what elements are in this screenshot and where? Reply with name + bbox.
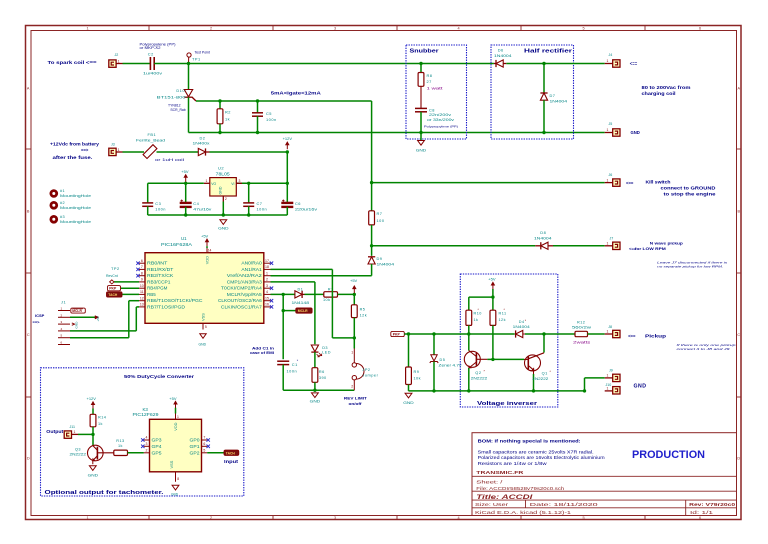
ground symbol snubber [418,141,425,146]
svg-text:U2: U2 [218,166,224,171]
resistor R7 [369,211,385,225]
svg-text:6: 6 [203,442,205,446]
svg-text:R9: R9 [414,370,420,374]
junction LED gnd node [313,389,316,392]
svg-text:1: 1 [74,430,76,434]
capacitor C8 [415,107,458,132]
capacitor C6 polarized [281,183,317,215]
svg-text:3: 3 [239,179,241,183]
power +5V main rail [185,177,187,182]
junction RA1 R5 JP2 [353,336,356,339]
svg-text:no separate pickup for low RPM: no separate pickup for low RPM. [657,264,723,268]
ground symbol below LED [312,393,319,398]
connector J8 [605,325,620,337]
svg-text:TACH: TACH [226,451,236,455]
svg-text:5: 5 [582,516,584,520]
svg-text:or 1uH coil: or 1uH coil [155,158,184,162]
svg-text:GND: GND [88,473,99,477]
ground symbol U2 [220,220,227,225]
snubber box [406,45,467,139]
svg-text:10k: 10k [323,298,330,302]
U1 left pins [136,259,202,310]
svg-text:4: 4 [146,436,148,440]
svg-text:1: 1 [118,59,120,63]
frame column ticks and numbers [86,26,701,520]
svg-text:+5V: +5V [96,315,100,322]
junction C5 gate [256,99,259,102]
wire gnd node to JP2 [315,389,354,391]
svg-text:#1: #1 [60,189,65,193]
connector J3 [109,143,123,156]
svg-text:10k: 10k [414,376,421,380]
note charging coil [642,85,691,96]
connector J6 [605,173,634,186]
svg-text:12: 12 [140,296,144,300]
power +5V inverser [492,285,494,290]
svg-text:PIC12F629: PIC12F629 [133,412,160,417]
svg-text:5: 5 [203,448,205,452]
svg-text:RB1/RX/DT: RB1/RX/DT [147,267,174,272]
svg-text:BOM: if nothing special is men: BOM: if nothing special is mentioned: [478,438,582,443]
note 12Vdc from battery [50,142,100,160]
svg-text:R5: R5 [360,307,366,311]
svg-text:1: 1 [177,415,179,419]
svg-text:or 33n/200v: or 33n/200v [427,118,454,122]
microcontroller K3 PIC12F629 [133,407,202,472]
svg-text:Id: 1/1: Id: 1/1 [690,510,714,515]
microcontroller U1 PIC16F628A [145,236,264,323]
svg-text:78L05: 78L05 [216,172,231,177]
junction R2 gate [218,99,221,102]
svg-text:or MKP-X2: or MKP-X2 [140,46,161,50]
wire to R12 [544,333,575,335]
frame row ticks and letters [26,87,742,461]
svg-text:2watts: 2watts [573,341,590,345]
svg-text:7: 7 [203,436,205,440]
wire R6 to gnd node [314,382,316,390]
svg-text:GP1: GP1 [190,444,201,449]
svg-text:1: 1 [86,516,88,520]
svg-text:2N2222: 2N2222 [471,375,488,380]
svg-text:J1: J1 [61,300,66,305]
wire MCLR to C1 [282,311,284,360]
wire U2 gnd pin [222,202,224,216]
wire SCR gate line [196,100,372,102]
junction +12V node [286,150,289,153]
svg-text:GND: GND [403,401,414,405]
diode D6 [494,47,513,67]
svg-text:8: 8 [177,477,179,481]
svg-text:TRANSMIC.FR: TRANSMIC.FR [476,470,524,475]
svg-text:A: A [738,87,741,91]
resistor R8 [418,64,442,91]
svg-text:3: 3 [266,284,268,288]
wire 5V to R5 [353,294,355,304]
svg-text:1: 1 [607,178,609,182]
svg-text:RevCnt: RevCnt [106,274,118,278]
svg-text:2: 2 [351,385,353,389]
svg-text:1: 1 [118,148,120,152]
power +12V [286,145,288,150]
svg-text:+5V: +5V [350,278,358,283]
svg-text:J9: J9 [609,369,613,373]
svg-text:50% DutyCycle Converter: 50% DutyCycle Converter [124,374,194,380]
svg-text:Q3: Q3 [75,448,81,452]
wire D1 to R1 [305,293,324,295]
svg-text:Q2: Q2 [475,370,481,375]
junction D7 top [542,62,545,65]
net label MCLR at U1 [296,308,312,313]
svg-text:1: 1 [86,26,88,30]
mounting hole M1 [51,189,91,198]
svg-text:GP4: GP4 [152,444,163,449]
svg-text:GND: GND [75,321,79,329]
svg-text:1: 1 [607,128,609,132]
svg-text:Small capacitors are ceramic 2: Small capacitors are ceramic 25volts X7R… [478,449,594,454]
junction C7 top [247,182,250,185]
svg-text:C: C [737,333,740,337]
wire J11 to Q3 [78,433,93,435]
svg-text:Rev: V79r20c0: Rev: V79r20c0 [689,502,736,507]
svg-text:Polarized capacitors are 16vol: Polarized capacitors are 16volts Electro… [478,455,606,460]
svg-text:GND: GND [634,384,647,390]
svg-text:C8: C8 [429,107,435,112]
svg-text:16: 16 [265,303,269,307]
svg-text:2: 2 [266,278,268,282]
svg-text:100: 100 [377,218,385,223]
resistor R2 [217,101,231,133]
junction Q2 emitter gnd [467,389,470,392]
mounting hole M2 [51,201,91,210]
transistor Q2 [464,334,487,391]
svg-text:+5V: +5V [488,277,496,282]
junction J9 gnd [583,389,586,392]
svg-text:1: 1 [206,179,208,183]
svg-text:D10: D10 [176,88,185,93]
wire PGC from RB6 to ICSP pin5 [70,301,139,338]
svg-text:5: 5 [582,26,584,30]
net flag RevCnt on RB3 [106,274,139,284]
resistor R10 [466,308,482,325]
svg-text:==>: ==> [81,148,89,153]
svg-text:D6: D6 [498,47,504,52]
title block kicad row [475,510,714,515]
svg-text:2N2222: 2N2222 [532,376,548,381]
wire 5V rail left of U2 [148,182,204,184]
svg-text:Size: User: Size: User [475,502,509,507]
svg-text:MCLR: MCLR [72,309,82,313]
svg-text:GND: GND [199,342,207,346]
svg-text:B: B [27,210,30,214]
wire R11 to base node [492,325,494,359]
junction at U2 input [286,182,289,185]
svg-text:VDD: VDD [173,422,178,430]
capacitor C2 [140,42,176,75]
junction D5 bottom [432,389,435,392]
svg-text:12k: 12k [499,318,506,322]
svg-text:220u/16v: 220u/16v [295,206,317,211]
capacitor C4 polarized [180,183,212,215]
svg-text:8: 8 [141,271,143,275]
connector J1 ICSP [33,300,71,345]
svg-text:AN0/RA0: AN0/RA0 [241,261,262,266]
svg-text:ICSP: ICSP [35,313,45,318]
svg-text:7: 7 [141,265,143,269]
svg-text:to stop the engine: to stop the engine [664,192,717,197]
junction 5V corner [491,295,494,298]
wire 12V node down [286,152,288,183]
svg-text:GP2: GP2 [190,450,201,455]
svg-text:+5V: +5V [181,169,189,174]
wire 12V to R14 [92,409,94,415]
svg-text:RB5: RB5 [147,292,157,297]
svg-text:SCR_Rab: SCR_Rab [170,108,185,112]
svg-text:connect to GROUND: connect to GROUND [661,186,716,191]
wire D8 to J7 [553,245,605,247]
K3 right pins [190,436,210,456]
svg-text:#2: #2 [60,201,65,205]
svg-text:100n: 100n [266,117,277,122]
duty cycle converter box [41,368,244,496]
junction Q1 emitter gnd [532,389,535,392]
svg-text:1: 1 [607,374,609,378]
svg-text:after the fuse.: after the fuse. [53,155,93,160]
svg-text:D5: D5 [440,358,446,362]
svg-text:Half rectifier: Half rectifier [524,49,573,55]
svg-text:1: 1 [607,330,609,334]
svg-text:RB6/T1OSO/T1CKI/PGC: RB6/T1OSO/T1CKI/PGC [147,298,203,303]
svg-text:B: B [738,210,741,214]
svg-text:Input: Input [224,459,239,464]
svg-text:100n: 100n [257,206,268,211]
junction D5 top [432,332,435,335]
svg-text:47u/16v: 47u/16v [193,206,211,211]
junction base node [491,358,494,361]
svg-text:1N4004: 1N4004 [377,261,396,266]
svg-text:PRODUCTION: PRODUCTION [632,449,705,461]
svg-text:4: 4 [457,516,459,520]
svg-text:100n: 100n [287,368,298,373]
svg-text:==>: ==> [33,320,41,325]
resistor R12 [572,320,591,344]
svg-text:TP2: TP2 [111,266,120,271]
svg-text:1: 1 [266,271,268,275]
svg-text:R11: R11 [499,312,507,316]
junction Q1 collector node [542,332,545,335]
mounting hole M3 [51,215,91,224]
svg-text:1k: 1k [118,444,123,448]
svg-text:Test Point: Test Point [195,50,210,54]
svg-text:PKP: PKP [109,287,117,291]
svg-text:D: D [27,457,30,461]
resistor R5 [351,305,367,318]
svg-text:GND: GND [310,399,321,403]
diode D9 [368,256,395,276]
svg-text:MCLR: MCLR [298,309,308,313]
wire SCR cathode down [188,97,190,132]
svg-text:1N400x: 1N400x [193,140,210,145]
wire 5V to R10 R11 [469,289,493,310]
svg-text:9: 9 [141,278,143,282]
wire C2 to snubber and J4 [154,63,494,65]
wire R5 to JP2 [353,318,355,349]
wire inverser gnd rail [409,390,584,392]
svg-text:GP5: GP5 [152,450,163,455]
svg-text:1: 1 [607,387,609,391]
connector J7 [605,236,637,251]
wire J2 to C2 [123,63,151,65]
svg-text:<==: <== [626,180,634,185]
svg-text:17: 17 [265,259,269,263]
connector J10 [605,383,620,394]
svg-text:U1: U1 [181,236,187,241]
svg-text:CLKIN/OSC1/RA7: CLKIN/OSC1/RA7 [221,304,263,309]
svg-text:6: 6 [141,259,143,263]
svg-text:100n: 100n [155,206,166,211]
svg-text:D9: D9 [377,256,383,261]
zener diode D5 [430,334,462,391]
svg-text:VDD: VDD [205,256,210,264]
transistor Q1 [524,353,552,391]
svg-text:R6: R6 [319,370,325,374]
wire R12 to J8 [588,333,605,335]
net label TACH on RB5 [107,292,140,297]
junction D7 bottom [542,131,545,134]
junction U2 gnd [222,213,225,216]
svg-text:1N4004: 1N4004 [550,98,569,103]
svg-text:for LOW RPM: for LOW RPM [635,246,667,251]
svg-text:18: 18 [265,265,269,269]
ground symbol Q3 [89,466,96,471]
svg-text:2: 2 [210,516,212,520]
svg-text:Kill switch: Kill switch [646,179,672,184]
title block size and date row [475,502,736,507]
svg-text:J2: J2 [115,53,119,57]
svg-text:2: 2 [225,197,227,201]
net label PKP on RB4 [108,286,140,291]
wire PKP line [404,333,514,335]
svg-text:1N4004: 1N4004 [513,325,530,329]
svg-text:+5V: +5V [169,396,177,401]
svg-text:3: 3 [334,516,336,520]
svg-text:D1: D1 [298,287,304,291]
diode D4 [513,319,530,337]
resistor R9 [406,334,421,391]
svg-text:charging coil: charging coil [642,91,676,96]
junction kill line [370,181,373,184]
ground symbol R9 [405,393,412,398]
svg-text:VI: VI [231,182,234,186]
svg-text:VSS: VSS [169,460,174,468]
regulator U2 78L05 [204,166,242,202]
wire RA1 sense line [271,269,355,338]
svg-text:GND: GND [218,226,229,230]
svg-text:10: 10 [140,284,144,288]
note add C1 for EMI [250,347,274,355]
svg-text:T0CKI/CMP2/RA4: T0CKI/CMP2/RA4 [221,286,263,291]
capacitor C5 [252,101,277,133]
svg-text:VSS: VSS [201,313,206,321]
svg-text:CMP1/AN3/RA3: CMP1/AN3/RA3 [227,279,263,284]
svg-text:1 watt: 1 watt [427,87,443,91]
svg-text:+12V: +12V [283,136,293,141]
svg-text:R8: R8 [427,73,433,78]
junction Q2 collector [467,332,470,335]
svg-text:GND: GND [219,186,223,194]
LED D3 [311,345,331,357]
note pickup [628,334,667,339]
svg-text:GND: GND [171,493,179,497]
svg-text:11: 11 [140,290,144,294]
net label MCLR at ICSP pin1 [71,308,86,313]
svg-text:C: C [27,333,30,337]
svg-text:1: 1 [607,242,609,246]
wire RA5 to D1 [271,293,295,295]
svg-text:1N4004: 1N4004 [534,236,553,241]
connector J2 [109,53,123,67]
svg-text:Resistors are 1/4w or 1/8w: Resistors are 1/4w or 1/8w [478,461,547,466]
svg-text:J11: J11 [70,425,76,429]
svg-text:Date: 18/11/2020: Date: 18/11/2020 [530,502,599,507]
svg-text:1N4148: 1N4148 [292,301,310,305]
wire kill switch line [372,182,605,184]
svg-text:on/off: on/off [349,401,363,406]
power +5V at U1 VDD [201,233,211,252]
svg-text:6: 6 [699,516,701,520]
jumper JP2 [351,349,378,391]
svg-text:GP3: GP3 [152,438,163,443]
svg-text:12k: 12k [360,314,367,318]
power +5V at K3 [169,396,179,420]
wire D4 to Q1 collector node [525,333,544,335]
wire R8 to C8 [420,86,422,108]
power +5V at R1 [353,289,355,294]
connector J4 [605,53,638,67]
note kill switch [646,179,717,196]
test point TP1 [187,50,210,63]
net flag GND at ICSP pin3 [72,321,79,329]
wire RA3 to LED [271,282,315,344]
title block comment text BOM [478,438,606,466]
svg-text:FB1: FB1 [148,132,157,137]
resistor R6 [312,368,327,383]
svg-text:To spark coil <==: To spark coil <== [48,60,98,65]
svg-text:PIC16F628A: PIC16F628A [161,242,192,247]
wire bottom gnd return [189,132,605,134]
svg-text:2: 2 [146,448,148,452]
svg-text:27: 27 [427,79,432,84]
svg-text:RB2/TX/CK: RB2/TX/CK [147,273,174,278]
capacitor C1 [277,359,299,390]
wire R1 to 5V node [338,293,355,295]
resistor R13 [114,439,128,456]
junction tacho output [91,433,94,436]
svg-text:RB7/T1OSI/PGD: RB7/T1OSI/PGD [147,304,185,309]
wire PGD from RB7 to ICSP pin4 [70,307,139,331]
junction MCLR label branch [282,309,285,312]
svg-text:Jumper: Jumper [362,373,378,378]
voltage inverser box [460,274,558,407]
junction R8 top [419,62,422,65]
svg-text:+5V: +5V [201,233,209,238]
svg-text:VO: VO [211,182,216,186]
svg-text:Polypropylene (PP): Polypropylene (PP) [424,125,458,129]
svg-text:TP1: TP1 [192,57,201,62]
svg-text:14: 14 [208,249,212,253]
wire low rpm pickup line [372,245,536,247]
svg-text:#3: #3 [60,215,65,219]
resistor R14 [90,414,106,427]
